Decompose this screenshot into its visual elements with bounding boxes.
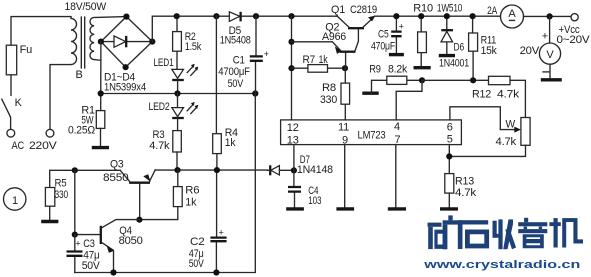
bridge rectifier D1~D4 diamond xyxy=(101,17,152,68)
wire C1 drop to bottom rail xyxy=(254,94,256,273)
wire pin12 riser xyxy=(291,16,293,120)
ground C5 xyxy=(389,53,404,56)
fuse Fu xyxy=(6,45,16,75)
svg-text:1k: 1k xyxy=(225,137,236,149)
svg-text:R8: R8 xyxy=(322,82,336,94)
svg-text:330: 330 xyxy=(320,94,337,106)
capacitor C5 xyxy=(395,16,397,52)
resistor R12 xyxy=(489,76,511,84)
svg-text:W: W xyxy=(506,118,516,130)
svg-text:C5: C5 xyxy=(378,28,389,40)
svg-text:15k: 15k xyxy=(481,45,498,57)
node bridge left xyxy=(98,39,104,45)
resistor R3 xyxy=(173,131,182,152)
LED LED2 xyxy=(177,94,179,108)
node rail D6 xyxy=(444,13,450,19)
watermark logo shou xyxy=(493,219,517,249)
svg-text:Q1: Q1 xyxy=(331,4,345,16)
watermark logo shi xyxy=(458,220,489,249)
node bridge right xyxy=(149,39,155,45)
wire regulated output rail xyxy=(375,15,501,17)
resistor R8 xyxy=(344,68,346,120)
svg-text:R5: R5 xyxy=(55,178,67,190)
svg-text:8050: 8050 xyxy=(119,235,143,247)
wire feedback to R12 xyxy=(422,80,525,117)
svg-text:C2819: C2819 xyxy=(350,4,377,16)
svg-text:8550: 8550 xyxy=(103,172,129,184)
svg-text:LED2: LED2 xyxy=(149,101,170,113)
LED LED1 xyxy=(172,69,184,78)
svg-text:4.7k: 4.7k xyxy=(455,187,477,199)
node R5 branch xyxy=(72,167,78,173)
ground pin7 xyxy=(388,207,406,210)
svg-text:LED1: LED1 xyxy=(154,57,174,69)
svg-text:6: 6 xyxy=(447,122,453,134)
svg-text:+: + xyxy=(542,31,548,43)
node Q4 base/C3 xyxy=(72,232,78,238)
bridge inner diode xyxy=(104,41,150,43)
svg-text:2A: 2A xyxy=(487,5,498,17)
svg-text:20V: 20V xyxy=(520,45,540,57)
wire branch to Q4 base and C3 xyxy=(75,170,100,234)
svg-text:+: + xyxy=(399,22,404,32)
svg-text:50V: 50V xyxy=(82,260,101,272)
svg-text:K: K xyxy=(15,97,23,109)
terminal AC 2 xyxy=(46,129,54,137)
node bridge top xyxy=(123,14,129,20)
node V meter tap xyxy=(547,13,553,19)
node rail D5 right xyxy=(253,13,259,19)
resistor R4 xyxy=(215,16,218,170)
resistor R5 xyxy=(50,170,121,187)
wire W bottom to pin5 xyxy=(449,145,525,156)
meter V voltmeter xyxy=(549,16,551,43)
node Q3 collector junction xyxy=(136,217,142,223)
node D7 pin13 junction xyxy=(291,167,297,173)
svg-text:Q3: Q3 xyxy=(110,159,124,171)
resistor R7 xyxy=(292,67,346,69)
capacitor C4 103 xyxy=(293,170,296,207)
svg-text:C3: C3 xyxy=(83,238,95,250)
svg-text:C1: C1 xyxy=(233,55,245,67)
node R3/R6 xyxy=(174,167,180,173)
svg-text:0~20V: 0~20V xyxy=(557,34,591,46)
svg-text:1N5399x4: 1N5399x4 xyxy=(104,81,146,93)
transistor Q4 8050 xyxy=(100,226,102,244)
ground R10 xyxy=(414,66,431,69)
svg-text:R13: R13 xyxy=(455,175,474,187)
ground R5 xyxy=(41,220,58,223)
node pin5/W/R13 xyxy=(446,153,452,159)
node rail pin12 riser xyxy=(288,13,294,19)
wire bottom rail xyxy=(75,272,255,274)
transformer T primary winding xyxy=(50,17,77,129)
node rail R11 xyxy=(470,13,476,19)
capacitor C2 xyxy=(215,170,217,272)
node Q4 emitter bottom xyxy=(110,269,116,275)
svg-text:4700μF: 4700μF xyxy=(218,66,250,78)
wire emitter rail y170 xyxy=(155,169,267,171)
svg-text:470μF: 470μF xyxy=(371,40,395,52)
svg-text:330: 330 xyxy=(55,189,69,201)
transformer core xyxy=(81,17,84,68)
svg-text:12: 12 xyxy=(287,122,299,134)
diode D6 1N4001 xyxy=(446,16,448,54)
transformer secondary winding xyxy=(90,17,126,61)
svg-text:0.25Ω: 0.25Ω xyxy=(68,125,95,137)
svg-text:1N5408: 1N5408 xyxy=(220,34,251,46)
wire rail after ammeter xyxy=(524,15,571,17)
svg-text:+: + xyxy=(75,238,80,248)
wire pin9 ground drop xyxy=(344,145,346,207)
resistor R13 xyxy=(445,174,454,194)
wire pin13 drop xyxy=(293,145,295,171)
wire pin7 ground drop xyxy=(395,145,397,207)
svg-text:www.crystalradio.cn: www.crystalradio.cn xyxy=(423,259,581,271)
terminal AC 1 xyxy=(7,129,15,137)
resistor R1 xyxy=(96,111,105,129)
ground R1 xyxy=(92,146,109,149)
svg-text:R12: R12 xyxy=(472,89,491,101)
svg-text:D6: D6 xyxy=(454,41,465,53)
node rail C5 xyxy=(393,13,399,19)
svg-text:AC: AC xyxy=(12,140,25,152)
meter A ammeter xyxy=(501,5,524,28)
node R7/R8/Q2 base xyxy=(342,65,348,71)
svg-text:1: 1 xyxy=(12,195,18,207)
svg-text:103: 103 xyxy=(308,195,321,207)
svg-text:1N4148: 1N4148 xyxy=(297,164,333,176)
node R9/R12/pin4 xyxy=(419,77,425,83)
svg-text:11: 11 xyxy=(338,122,349,134)
wire LED sense rail y93.5 xyxy=(101,93,256,95)
resistor R11 xyxy=(472,16,475,80)
ground C4 xyxy=(286,207,304,210)
ground D6 xyxy=(439,54,455,57)
svg-text:4.7k: 4.7k xyxy=(497,89,520,101)
svg-text:1N4001: 1N4001 xyxy=(439,57,469,69)
node rail R10 xyxy=(418,13,424,19)
wire pin4 jog xyxy=(396,80,422,120)
wire pin5 drop xyxy=(448,145,450,174)
svg-text:8.2k: 8.2k xyxy=(388,63,408,75)
resistor R10 xyxy=(420,16,422,66)
svg-text:4: 4 xyxy=(394,121,400,133)
svg-text:4.7k: 4.7k xyxy=(496,136,517,148)
ground R9 left xyxy=(362,91,378,94)
capacitor C3 xyxy=(74,235,76,273)
node rail R2 xyxy=(174,13,180,19)
resistor R2 xyxy=(176,16,178,69)
svg-text:1W510: 1W510 xyxy=(437,2,462,14)
node R7 left tap xyxy=(288,65,294,71)
svg-text:50V: 50V xyxy=(228,78,244,90)
watermark logo yin xyxy=(518,218,547,249)
ground pin9 xyxy=(336,207,354,210)
diode D5 xyxy=(229,12,240,22)
node LED junction xyxy=(174,90,180,96)
wire AC input left leg with fuse lead xyxy=(11,17,71,96)
svg-text:R10: R10 xyxy=(413,2,433,14)
ground R13 xyxy=(440,207,458,210)
node C1 bottom dot xyxy=(252,90,258,96)
svg-text:A: A xyxy=(508,8,516,20)
transistor Q2 A966 xyxy=(292,29,359,68)
svg-text:B: B xyxy=(76,69,83,81)
switch K xyxy=(2,99,11,129)
svg-text:R7: R7 xyxy=(303,54,316,66)
svg-text:220V: 220V xyxy=(29,140,57,152)
watermark logo ji xyxy=(549,218,583,247)
svg-text:+: + xyxy=(264,49,269,59)
node circled 1 xyxy=(4,188,26,210)
node R1 top rail dot xyxy=(98,90,104,96)
wire bridge right riser and unregulated top rail xyxy=(152,16,337,41)
svg-text:C2: C2 xyxy=(190,236,205,248)
svg-text:50V: 50V xyxy=(189,258,205,270)
svg-text:13: 13 xyxy=(287,134,299,146)
watermark logo kuang xyxy=(428,215,463,249)
ground voltmeter xyxy=(541,78,562,81)
svg-text:Fu: Fu xyxy=(20,44,33,56)
svg-text:R9: R9 xyxy=(369,63,381,75)
svg-text:18V/50W: 18V/50W xyxy=(65,1,107,13)
node R4/C2 xyxy=(214,167,220,173)
svg-text:1.5k: 1.5k xyxy=(185,41,202,53)
svg-text:4.7k: 4.7k xyxy=(149,140,170,152)
svg-text:V: V xyxy=(546,49,554,61)
transistor Q1 C2819 xyxy=(348,27,364,29)
resistor R6 xyxy=(139,170,177,220)
node bridge bottom xyxy=(123,64,129,70)
resistor R9 xyxy=(372,80,423,93)
svg-text:R6: R6 xyxy=(185,184,199,196)
diode D7 1N4148 xyxy=(269,165,271,175)
capacitor C1 xyxy=(255,16,258,93)
node rail D5 left xyxy=(213,13,219,19)
node R11 bottom xyxy=(470,77,476,83)
terminal output + xyxy=(571,14,578,21)
svg-text:5: 5 xyxy=(447,133,453,145)
svg-text:A966: A966 xyxy=(322,31,346,43)
wire bridge left drop to R1 xyxy=(100,42,102,111)
svg-text:LM723: LM723 xyxy=(358,129,386,141)
svg-text:1k: 1k xyxy=(319,54,329,66)
IC U1 LM723 xyxy=(281,120,462,145)
node C2 bottom xyxy=(213,269,219,275)
svg-text:+: + xyxy=(219,227,224,237)
potentiometer W xyxy=(521,118,530,146)
svg-text:1k: 1k xyxy=(185,196,197,208)
transistor Q3 8550 xyxy=(120,170,129,181)
node Q2 emitter tap xyxy=(288,39,294,45)
